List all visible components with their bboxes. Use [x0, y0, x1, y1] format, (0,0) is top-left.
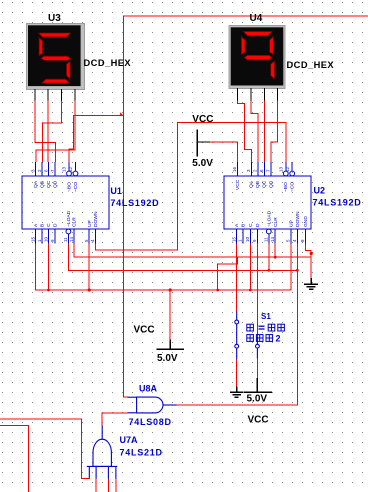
wire U2.D to S1 right [256, 244, 258, 338]
wire U7A input3 tail [107, 479, 109, 492]
svg-text:DOWN: DOWN [93, 211, 99, 227]
svg-text:5.0V: 5.0V [157, 353, 178, 364]
svg-text:74LS192D: 74LS192D [110, 198, 159, 208]
U4 display pins [238, 88, 278, 101]
svg-text:15: 15 [231, 236, 236, 242]
svg-text:VCC: VCC [235, 179, 241, 190]
wire U3.p3 to U1.QB [42, 101, 61, 163]
U1 ~CO bubble [73, 171, 78, 176]
S1 terminal stub right bottom [256, 348, 258, 358]
junction jog riser on VCC rail [216, 289, 219, 292]
wire long net top rail and left riser to U8A input1 [124, 16, 368, 397]
U1 top pin stubs [36, 162, 76, 176]
wire U2.~LOAD stub drop [268, 244, 270, 271]
svg-text:VCC: VCC [192, 114, 213, 125]
U3 digit 5 segment top-left [39, 38, 42, 56]
power VCC top (bar + stem) [197, 129, 210, 156]
ground at U2 GND/CLR net [304, 278, 318, 289]
wire VCC rail y=289 U1.A to U2.UP [36, 244, 291, 291]
S1 terminal stub pole [236, 348, 238, 359]
svg-text:QC: QC [262, 180, 268, 188]
U7A output stub [101, 425, 103, 439]
U8A input stubs [128, 396, 137, 398]
wire U2.A to S1 top [236, 244, 238, 312]
wire U4.p1 to U2.QA [238, 101, 252, 163]
svg-text:UP: UP [288, 220, 294, 227]
wire U2.GND jog to ground [306, 244, 312, 279]
svg-text:U8A: U8A [139, 384, 158, 394]
svg-text:~CO: ~CO [290, 182, 296, 192]
U1 ~LOAD bubble [66, 229, 71, 234]
and-gate U7A 74LS21D (4-input, rotated up) [87, 425, 118, 478]
svg-text:CLR: CLR [273, 217, 279, 227]
svg-text:5.0V: 5.0V [247, 393, 268, 404]
wire Z-jog segment [218, 257, 238, 290]
wire U7A input2 tail [95, 479, 97, 492]
svg-text:QA: QA [33, 180, 39, 188]
wire U8A output red [177, 404, 298, 406]
wire U2.DOWN to U8A output [177, 244, 298, 405]
U4 digit 9 segment top-right [270, 36, 274, 54]
wire U1.~BO riser [69, 116, 124, 162]
U4 digit 9 segment top-left [241, 37, 245, 55]
svg-text:QB: QB [255, 181, 261, 188]
junction U1.UP on VCC rail [88, 288, 91, 291]
power VCC mid (down bar) [156, 339, 184, 349]
svg-text:14: 14 [69, 236, 74, 242]
svg-text:D: D [255, 223, 261, 227]
svg-text:U1: U1 [110, 186, 122, 196]
wire S1 pole3 to vcc bar [256, 359, 258, 379]
svg-text:74LS21D: 74LS21D [120, 447, 163, 457]
S1 contact circle right [256, 344, 260, 348]
svg-text:74LS192D: 74LS192D [313, 197, 362, 207]
svg-text:D: D [53, 223, 59, 227]
U3 digit 5 segment bottom-right [67, 61, 71, 79]
power VCC at S1 (down bar) [244, 378, 272, 392]
svg-text:DCD_HEX: DCD_HEX [287, 60, 335, 70]
svg-text:DCD_HEX: DCD_HEX [84, 58, 132, 68]
S1 contact circle pole [235, 344, 239, 348]
U2 pin name labels [234, 179, 309, 227]
U2 ~CO bubble [290, 171, 295, 176]
U2 bottom pin stubs [237, 229, 306, 244]
wire U7A output to U8A input2 [102, 413, 127, 426]
U3 digit 5 segment middle [41, 56, 70, 60]
svg-text:5.0V: 5.0V [192, 158, 213, 169]
svg-text:14: 14 [270, 236, 275, 242]
wire U4.p4 to U2.QD [271, 101, 278, 163]
svg-text:QC: QC [46, 180, 52, 188]
svg-text:UP: UP [87, 220, 93, 227]
svg-text:~LOAD: ~LOAD [266, 210, 272, 227]
seven-seg display U3 [27, 24, 85, 90]
svg-text:15: 15 [30, 236, 35, 242]
svg-text:U2: U2 [314, 185, 326, 195]
wire U1.CLR rail y=257 to ground node [74, 244, 311, 258]
wire U2.CLR drop [274, 244, 276, 258]
svg-text:12: 12 [68, 166, 73, 172]
svg-text:C: C [248, 223, 254, 227]
U1 pin name labels [33, 180, 99, 227]
svg-text:VCC: VCC [134, 325, 155, 336]
wire left edge rail 2 down off canvas [0, 425, 29, 492]
blue component labels [110, 185, 361, 457]
wire U1.C drop to VCC rail [48, 244, 50, 292]
seven-seg display U4 [229, 26, 285, 89]
svg-text:10: 10 [245, 236, 250, 242]
svg-text:CLR: CLR [72, 217, 78, 227]
svg-text:~BO: ~BO [67, 182, 73, 192]
S1 terminal stub top [236, 311, 238, 320]
svg-text:74LS08D: 74LS08D [129, 417, 172, 427]
U2 ~LOAD bubble [266, 229, 271, 234]
S1 contact circle top [235, 320, 239, 324]
svg-text:DOWN: DOWN [295, 211, 301, 227]
svg-text:U7A: U7A [120, 435, 139, 445]
wire U1.~LOAD rail y=269 [68, 244, 297, 271]
junction ground node [310, 252, 313, 255]
wire VCC stem to U2 pin16 [210, 142, 238, 162]
and-gate U8A 74LS08D [128, 397, 177, 413]
svg-text:~CO: ~CO [73, 182, 79, 192]
svg-text:U3: U3 [48, 13, 61, 24]
svg-text:11: 11 [63, 237, 68, 242]
U4 digit 9 segment middle [244, 55, 272, 59]
junction at carry rail riser [120, 112, 123, 115]
wire U2.C drop [249, 244, 251, 291]
svg-text:B: B [241, 224, 247, 227]
svg-text:QD: QD [268, 180, 274, 188]
junction U2.C on VCC rail [249, 289, 252, 292]
U2 ~BO bubble [283, 171, 288, 176]
label key equals space (CJK approximated glyph boxes) [247, 324, 285, 331]
wire U3.p1 to U1.QD [35, 101, 55, 163]
svg-text:C: C [46, 223, 52, 227]
wire U1.UP drop [88, 244, 90, 291]
wire left edge rail 1 to U7A input1 [0, 419, 89, 479]
U2 pin numbers [231, 166, 305, 242]
wire S1 pole2 to ground [236, 360, 238, 388]
svg-text:2: 2 [276, 334, 281, 344]
U8A output stub [163, 404, 177, 406]
op IC U2 74LS192D body [224, 162, 311, 244]
svg-text:13: 13 [278, 166, 283, 172]
wire U4.p3 to U2.QC [263, 101, 265, 163]
junction U2.~LOAD on load rail [267, 269, 270, 272]
junction U2.CLR on clear rail [274, 256, 277, 259]
svg-text:QB: QB [39, 181, 45, 188]
U3 display pins [35, 89, 75, 101]
U4 digit 9 segment top [244, 32, 273, 36]
wire VCC mid drop from rail [169, 290, 171, 339]
U3 digit 5 segment top [39, 33, 71, 37]
U1 ~BO bubble [67, 171, 72, 176]
junction load rail at U2.DOWN wire [296, 269, 299, 272]
ground at S1 [230, 387, 243, 398]
svg-text:~BO: ~BO [283, 182, 289, 192]
wire U7A input4 tail [115, 479, 117, 492]
svg-text:~LOAD: ~LOAD [66, 210, 72, 227]
switch S1 [235, 311, 259, 360]
svg-text:13: 13 [61, 166, 66, 172]
op IC U1 74LS192D body [22, 162, 109, 244]
svg-text:U4: U4 [250, 13, 263, 24]
U7A base bar [87, 465, 118, 467]
svg-text:QA: QA [249, 180, 255, 188]
wire U4.p2 to U2.QB [251, 101, 258, 163]
svg-text:S1: S1 [261, 312, 271, 321]
wire U3.p2 to U1.QC [47, 101, 49, 163]
label host person 2 (CJK approximated glyph boxes) [247, 334, 281, 344]
U1 pin numbers [30, 166, 95, 242]
junction U1.C on VCC rail [47, 289, 50, 292]
svg-text:QD: QD [52, 180, 58, 188]
U3 digit 5 segment bottom [42, 79, 70, 83]
wire U1.DOWN to U2.~BO cascade [95, 122, 285, 250]
U4 digit 9 segment bottom-right [271, 61, 275, 79]
svg-text:GND: GND [303, 216, 309, 227]
U2 top pin stubs [238, 162, 293, 176]
svg-text:VCC: VCC [248, 415, 269, 426]
U7A input stubs [88, 466, 90, 478]
junction VCC symbol drop on rail [169, 288, 172, 291]
wire U3.p4 to U1.QA [36, 101, 75, 163]
U1 bottom pin stubs [36, 229, 96, 244]
S1 terminal stub right top [256, 337, 258, 344]
S1 blade [236, 324, 238, 344]
svg-text:16: 16 [232, 166, 237, 172]
svg-text:11: 11 [263, 237, 268, 242]
svg-text:B: B [40, 224, 46, 227]
svg-text:10: 10 [43, 236, 48, 242]
black text labels [48, 13, 334, 426]
svg-text:12: 12 [285, 166, 290, 172]
